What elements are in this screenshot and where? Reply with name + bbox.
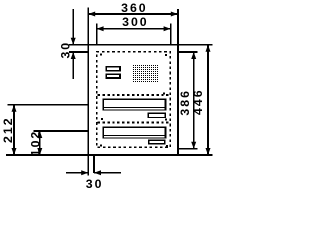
svg-text:446: 446	[191, 88, 205, 115]
svg-text:386: 386	[178, 89, 192, 116]
svg-text:212: 212	[1, 116, 15, 143]
svg-text:360: 360	[121, 1, 148, 15]
svg-text:300: 300	[122, 15, 149, 29]
svg-text:102: 102	[28, 130, 42, 157]
svg-text:30: 30	[86, 177, 104, 191]
svg-text:30: 30	[58, 41, 72, 59]
